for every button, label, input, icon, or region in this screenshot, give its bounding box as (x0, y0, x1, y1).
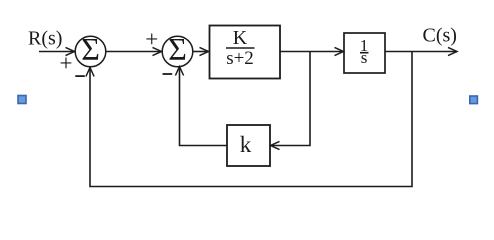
wire inner feedback tap down from node at x=310 (271, 52, 311, 146)
svg-text:C(s): C(s) (423, 25, 457, 47)
arrowhead into summer 1 (66, 47, 75, 55)
arrowhead up into summer 2 bottom (175, 67, 183, 76)
block k box (227, 125, 270, 166)
svg-text:Σ: Σ (168, 31, 187, 67)
svg-text:k: k (240, 132, 252, 157)
wire input line R(s) to summer 1 (39, 51, 75, 53)
fraction bar of K/(s+2) (226, 47, 255, 49)
arrowhead into block K/(s+2) (200, 47, 209, 55)
selection handle left (blue square) (18, 96, 26, 104)
svg-text:Σ: Σ (81, 31, 100, 67)
svg-text:+: + (60, 51, 73, 76)
wire block K/(s+2) to block 1/s (280, 51, 344, 53)
wire output line to C(s) (385, 51, 457, 53)
svg-text:K: K (233, 27, 248, 49)
svg-text:s+2: s+2 (226, 48, 254, 69)
block K/(s+2) box (210, 26, 281, 79)
fraction bar of 1/s (360, 52, 369, 54)
arrowhead into block 1/s (335, 47, 344, 55)
summing junction circle 2 (162, 36, 193, 67)
arrowhead up into summer 1 bottom (86, 68, 94, 77)
svg-text:R(s): R(s) (28, 28, 62, 50)
minus sign at summer 1 feedback (75, 75, 85, 77)
arrowhead into k block (pointing left) (271, 141, 280, 149)
wire outer feedback from output node down and around to summer 1 (90, 52, 412, 187)
wire summer2 to block K/(s+2) (193, 51, 209, 53)
minus sign at summer 2 feedback (163, 73, 173, 75)
arrowhead output C(s) (448, 47, 457, 55)
summing junction circle 1 (75, 36, 106, 67)
svg-text:s: s (361, 48, 368, 67)
wire summer1 to summer2 (106, 51, 162, 53)
block 1/s box (344, 33, 385, 73)
wire k block output to summer 2 (180, 67, 228, 146)
svg-text:+: + (145, 27, 158, 52)
arrowhead into summer 2 (153, 47, 162, 55)
selection handle right (blue square) (470, 96, 478, 104)
